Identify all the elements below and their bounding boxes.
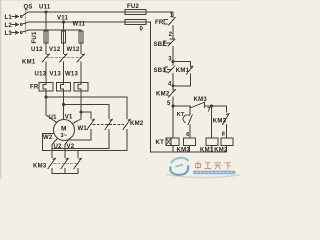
watermark logo [166,158,240,178]
motor M [54,120,75,141]
node U branch [45,96,47,98]
contact KM3 NC interlock [191,102,205,108]
contact KT delayed [183,106,192,138]
wire U feed to KM2 [46,97,127,119]
svg-text:1: 1 [170,13,174,19]
wire V2 [65,139,69,158]
svg-text:W13: W13 [65,72,79,78]
button SB1 NO [165,66,175,74]
svg-text:M: M [61,126,67,133]
coil KT [166,138,179,145]
svg-text:KM3: KM3 [33,164,47,170]
svg-text:QS: QS [24,5,33,11]
contact KM3 aux NO [223,114,230,138]
node L3 [12,31,19,34]
wire U2 [52,139,57,158]
wire 2 [172,26,174,39]
wire rung to node 7 [173,105,227,107]
svg-text:W1: W1 [78,126,88,132]
svg-text:FR: FR [30,85,39,91]
svg-text:U1: U1 [49,115,58,121]
wire 4 [172,74,174,90]
svg-text:W12: W12 [67,47,81,53]
wire W13 segment [80,62,82,83]
wire KM1 branch top [173,62,191,67]
contact KM2 aux NO [169,89,176,97]
svg-text:3~: 3~ [61,133,68,139]
button SB2 NC [164,39,175,46]
svg-text:KM2: KM2 [156,92,170,98]
coil KM1 [206,138,218,145]
wire 0 rail [150,22,152,152]
wire KT coil drop [172,106,174,138]
wire U11 [28,11,173,13]
svg-text:U12: U12 [31,47,43,53]
svg-text:0: 0 [140,27,144,33]
svg-text:KM1: KM1 [22,60,36,66]
svg-text:W11: W11 [73,21,86,27]
svg-text:KT: KT [177,112,185,118]
thermal relay FR heaters [39,83,88,92]
coil KM3 [184,138,196,145]
svg-text:2: 2 [169,32,173,38]
svg-text:KM1: KM1 [200,147,214,153]
wire U to motor U1 [46,91,57,123]
svg-text:L2: L2 [5,23,13,29]
svg-text:FU2: FU2 [127,4,139,10]
svg-text:FR: FR [155,20,164,26]
svg-text:5: 5 [167,101,171,107]
svg-text:FU1: FU1 [32,31,38,43]
wire bottom rail [151,151,227,153]
wire V phase drop [63,22,65,54]
node 5 [172,105,174,107]
svg-text:SB1: SB1 [154,68,167,74]
wire W to motor W1 [72,91,81,124]
svg-text:L3: L3 [5,31,13,37]
wire star stub [77,151,79,158]
wire W11 [28,29,81,31]
node W branch [80,111,82,113]
wire 5 [172,97,174,106]
wire KM2 return to U2 [52,130,109,149]
wire V to motor V1 [63,91,65,120]
svg-text:KM3: KM3 [213,119,227,125]
svg-text:KM2: KM2 [130,121,144,127]
contactor KM1 main contacts [42,54,85,62]
wire star point [52,169,78,174]
wire KM2 return to V2 [68,130,91,141]
svg-text:SB2: SB2 [154,42,167,48]
svg-text:KM3: KM3 [194,97,208,103]
node U11 junction [45,11,47,13]
wire W feed to KM2 [81,112,91,119]
wire KM1 branch bottom [173,74,191,86]
svg-text:KT: KT [156,140,165,146]
node 3 [172,61,174,63]
node V11 junction [63,21,65,23]
svg-text:W2: W2 [43,135,53,141]
svg-text:V1: V1 [65,115,73,121]
contact FR NC [164,17,175,25]
wire KM2 branch [212,106,227,112]
wire W2 [43,134,54,151]
wire KM1 coil drop [211,106,213,138]
wire U13 segment [45,62,47,83]
svg-text:L1: L1 [5,15,13,21]
wire V13 segment [63,62,65,83]
contact KM1 aux NO [187,66,194,74]
wire 1 [172,12,174,18]
paper background [0,0,240,179]
svg-text:U11: U11 [39,5,51,11]
wire W phase drop [80,30,82,54]
fuse FU1 (three cartridges) [44,31,48,43]
svg-text:V13: V13 [50,72,62,78]
wire V11 [28,21,151,23]
contactor KM3 star contacts [48,158,82,168]
svg-text:KM2: KM2 [214,147,228,153]
svg-text:KM3: KM3 [177,147,191,153]
wire V feed to KM2 [64,105,110,119]
svg-text:6: 6 [186,132,189,138]
svg-text:V2: V2 [67,144,75,150]
contactor KM2 delta contacts [87,119,131,129]
svg-text:V12: V12 [49,47,61,53]
wire 3 [172,47,174,66]
svg-text:8: 8 [222,132,225,138]
svg-text:7: 7 [207,108,211,114]
coil KM2 [221,138,233,145]
node 4 [172,85,174,87]
svg-text:U2: U2 [54,144,63,150]
wire KM2 return to W2 [43,130,128,151]
node V branch [63,104,65,106]
node L2 [12,23,19,26]
node L1 [12,15,19,18]
svg-text:V11: V11 [57,16,69,22]
svg-text:U13: U13 [35,72,47,78]
svg-text:4: 4 [168,82,172,88]
node 7 [210,105,212,107]
svg-text:KM1: KM1 [176,68,190,74]
fuse FU2 upper [125,9,146,14]
fuse FU2 lower [125,19,146,24]
wire U phase drop [45,12,47,54]
wire coil stubs [173,145,227,152]
svg-text:3: 3 [168,57,172,63]
switch QS [20,10,27,34]
